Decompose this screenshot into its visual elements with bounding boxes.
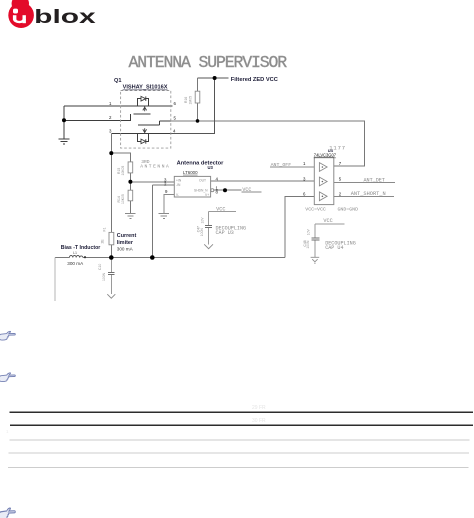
ground C48 arrow [311,257,320,263]
R16 labels [184,96,192,105]
ground C10 arrow [107,294,115,298]
svg-text:VISHAY_SI1016X: VISHAY_SI1016X [123,85,168,91]
pin numbers Q1 [109,101,177,134]
wire pin3 column [110,134,112,233]
svg-text:5: 5 [174,116,177,121]
svg-text:74LVC3G07: 74LVC3G07 [314,153,337,158]
svg-text:2: 2 [109,115,112,120]
svg-text:ANTENNA: ANTENNA [140,163,170,169]
bus wire [55,257,285,259]
svg-text:10V: 10V [307,229,311,236]
svg-text:limiter: limiter [117,240,134,246]
svg-text:Filtered ZED VCC: Filtered ZED VCC [231,77,278,83]
IC U4 box [314,157,334,204]
svg-text:Bias -T Inductor: Bias -T Inductor [61,245,100,251]
U4 pin numbers [303,161,342,196]
note hand icon 3 (clipped) [0,508,15,518]
resistor R16 [195,91,200,103]
capacitor C10 leads [110,258,112,295]
wire top-left [64,106,121,139]
svg-text:CAP U4: CAP U4 [325,245,343,251]
Q1 diodes and arrows [141,96,147,143]
svg-text:1: 1 [6,429,9,434]
svg-text:10K05: 10K05 [121,194,125,204]
wire ANT_SHORT_N [334,195,394,197]
transistor Q1 mains [111,99,172,142]
wire to op-amp +IN [130,181,174,183]
svg-text:2: 2 [339,191,342,196]
note hand icon 2 [0,373,15,382]
svg-text:U3: U3 [208,165,214,170]
note hand icon 1 [0,331,15,340]
U3 pin labels [164,177,219,195]
svg-text:GND=GND: GND=GND [338,207,359,213]
resistor R14 [128,190,133,201]
U4 buffers [319,163,327,201]
svg-text:7: 7 [339,161,342,166]
ground C47 arrow [204,244,213,248]
svg-text:blox: blox [34,7,96,28]
op-amp U3 box [174,176,210,197]
svg-text:6: 6 [174,101,177,106]
svg-text:VCC: VCC [323,218,332,224]
svg-text:2E: 2E [100,239,104,244]
junction nodes [62,76,227,260]
svg-text:-IN: -IN [176,183,181,187]
svg-text:6: 6 [303,191,306,196]
VCC rail U4 cap [315,224,344,238]
svg-text:VCC: VCC [216,207,225,213]
svg-text:ANT_SHORT_N: ANT_SHORT_N [351,191,386,197]
svg-text:3: 3 [109,129,112,134]
wire ANT_DET [334,181,395,183]
VCC rail [242,191,262,193]
svg-text:ANT_OFF: ANT_OFF [271,162,292,168]
svg-text:L1: L1 [73,251,77,255]
resistor R16 leads [197,78,199,121]
ground [59,139,70,144]
svg-text:300 mA: 300 mA [67,261,84,266]
resistor leads [129,173,131,190]
svg-text:F1: F1 [103,227,107,231]
svg-text:LT6000: LT6000 [183,170,198,175]
fuse lead [110,245,112,258]
svg-text:29 FR: 29 FR [252,405,266,411]
inductor L1 [69,256,83,258]
wire ANT_OFF [270,166,314,168]
svg-text:Current: Current [117,233,137,239]
wire V- to ground [164,195,175,214]
svg-text:Antenna detector: Antenna detector [177,160,225,166]
capacitor C48 [314,224,316,257]
wire pin5 net [171,121,365,166]
svg-text:30 FR: 30 FR [252,418,266,424]
svg-text:C10: C10 [98,264,102,270]
svg-text:5: 5 [339,176,342,181]
ground [125,214,135,219]
svg-text:4: 4 [173,129,176,134]
resistor R15 [128,162,133,173]
wire -IN [152,185,174,257]
svg-text:300 mA: 300 mA [117,247,134,252]
capacitor C47 [208,228,210,245]
wire pin4 net [171,78,229,134]
svg-text:VCC=VCC: VCC=VCC [305,207,326,213]
svg-text:ANTENNA SUPERVISOR: ANTENNA SUPERVISOR [129,53,288,72]
svg-text:+IN: +IN [176,179,182,183]
ground [159,214,169,219]
svg-text:10V: 10V [200,217,204,224]
C10 labels [98,264,106,281]
svg-text:Q1: Q1 [114,78,121,84]
svg-text:VCC: VCC [242,187,251,193]
svg-text:100N: 100N [102,272,106,281]
wire to R15 [111,153,130,162]
svg-text:1: 1 [303,161,306,166]
pin SHDN_N bubble [211,189,214,192]
svg-text:100N: 100N [306,240,310,249]
svg-text:OUT: OUT [199,179,206,183]
svg-text:SHDN_N: SHDN_N [194,188,208,192]
wire OUT to U4 pin3 [211,180,315,182]
transistor Q1 box [121,91,171,149]
svg-text:1M05: 1M05 [188,96,192,105]
VCC rail U3 cap [209,211,237,225]
svg-text:1: 1 [109,101,112,106]
svg-text:V-: V- [176,193,179,197]
svg-text:V+: V+ [205,193,209,197]
wire SHDN_N to VCC [214,189,242,191]
svg-text:ANT_DET: ANT_DET [364,177,385,183]
svg-text:10K05: 10K05 [121,166,125,176]
Current limiter [100,227,106,243]
wire R14 to ground [129,201,131,214]
svg-text:CAP U3: CAP U3 [216,230,234,236]
svg-text:100N: 100N [200,228,204,237]
u-blox logo [8,0,96,28]
riser to U4 pin6 [285,196,314,257]
table rules [8,412,473,467]
svg-text:9: 9 [165,189,168,194]
wire pin2 [64,114,130,121]
fuse F1 current limiter [109,232,114,244]
R15 R14 labels [117,166,125,176]
